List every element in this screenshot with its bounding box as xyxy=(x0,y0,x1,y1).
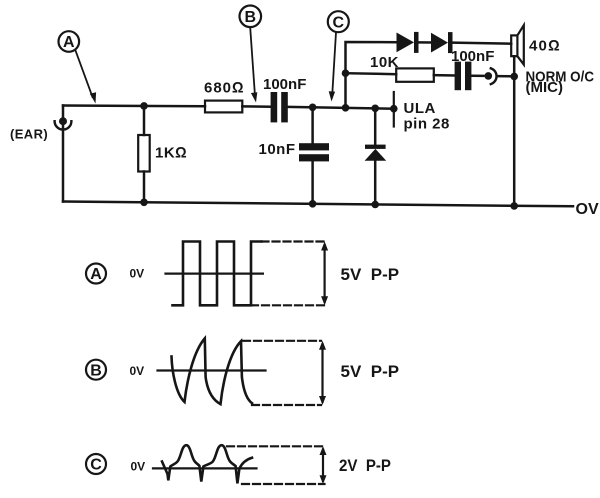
svg-text:100nF: 100nF xyxy=(263,76,306,93)
svg-text:0V: 0V xyxy=(130,364,145,378)
waveform C pulse train xyxy=(162,445,252,483)
dashed level top row C xyxy=(227,445,325,447)
capacitor C2 10nF xyxy=(299,107,329,204)
node dots on 0V rail xyxy=(140,199,518,210)
wire capacitor to mic plug xyxy=(471,75,483,78)
resistor R2 1Kohm xyxy=(138,106,150,203)
svg-text:40Ω: 40Ω xyxy=(529,38,561,55)
node C xyxy=(328,11,349,101)
wire branch up from node C xyxy=(346,42,398,108)
waveform B sawtooth xyxy=(172,338,253,404)
svg-text:0V: 0V xyxy=(130,267,145,281)
svg-text:10nF: 10nF xyxy=(259,141,296,158)
svg-text:10K: 10K xyxy=(370,54,399,71)
dashed level top row B xyxy=(243,340,321,342)
wire main segment 2 xyxy=(242,105,270,108)
svg-text:A: A xyxy=(90,266,102,283)
svg-text:2V P-P: 2V P-P xyxy=(339,456,391,475)
svg-text:B: B xyxy=(90,362,102,379)
arrow P-P row A xyxy=(321,242,328,306)
wire left vertical xyxy=(62,106,65,202)
ULA pin 28 stub xyxy=(393,92,395,127)
node A xyxy=(59,31,97,103)
arrow P-P row B xyxy=(319,341,326,405)
node junction 10K tap xyxy=(342,69,350,77)
svg-text:100nF: 100nF xyxy=(451,48,494,65)
speaker LS1 xyxy=(511,25,524,64)
waveform C axis xyxy=(153,467,257,469)
dashed level bottom row A xyxy=(251,304,327,306)
svg-text:A: A xyxy=(63,34,75,51)
node B xyxy=(240,5,262,102)
wire main top segment 1 xyxy=(63,104,205,107)
svg-text:B: B xyxy=(245,9,257,26)
capacitor C3 100nF xyxy=(455,62,472,91)
svg-text:C: C xyxy=(90,457,102,474)
wire 10K branch xyxy=(346,73,397,74)
svg-text:5V P-P: 5V P-P xyxy=(341,265,400,284)
MIC jack connector xyxy=(485,68,497,84)
svg-text:pin 28: pin 28 xyxy=(404,116,450,133)
node junction speaker/mic xyxy=(510,73,518,81)
waveform A square wave xyxy=(173,242,262,306)
svg-text:ULA: ULA xyxy=(404,100,436,117)
svg-text:(MIC): (MIC) xyxy=(526,79,564,96)
svg-text:0V: 0V xyxy=(131,459,146,473)
resistor R1 680ohm xyxy=(205,101,242,113)
svg-text:680Ω: 680Ω xyxy=(204,80,245,97)
svg-text:(EAR): (EAR) xyxy=(10,126,48,141)
wire resistor to capacitor xyxy=(434,74,455,77)
arrow P-P row C xyxy=(320,446,327,484)
node B waveform label circle xyxy=(86,360,106,380)
dashed level bottom row C xyxy=(242,483,325,485)
wire 0V rail xyxy=(63,202,573,207)
diode D2 xyxy=(431,32,511,53)
capacitor C1 100nF xyxy=(271,92,288,122)
node junction dots on main wire xyxy=(140,102,397,112)
waveform B axis xyxy=(158,369,266,371)
dashed level bottom row B xyxy=(252,404,321,406)
EAR jack connector xyxy=(55,117,72,129)
svg-text:C: C xyxy=(333,15,345,32)
svg-text:1KΩ: 1KΩ xyxy=(155,145,187,162)
waveform A axis xyxy=(166,273,263,275)
dashed level top row A xyxy=(262,240,327,242)
wire main segment 3 xyxy=(288,107,394,109)
wire speaker to 0V rail xyxy=(513,56,516,206)
node C waveform label circle xyxy=(86,454,106,474)
diode D3 vertical clamp xyxy=(365,108,387,204)
resistor R3 10K xyxy=(396,68,434,81)
svg-text:5V P-P: 5V P-P xyxy=(341,362,400,381)
svg-text:OV: OV xyxy=(576,201,599,218)
diode D1 xyxy=(397,32,432,53)
node A waveform label circle xyxy=(86,264,106,284)
wire mic plug to speaker line xyxy=(498,75,515,78)
